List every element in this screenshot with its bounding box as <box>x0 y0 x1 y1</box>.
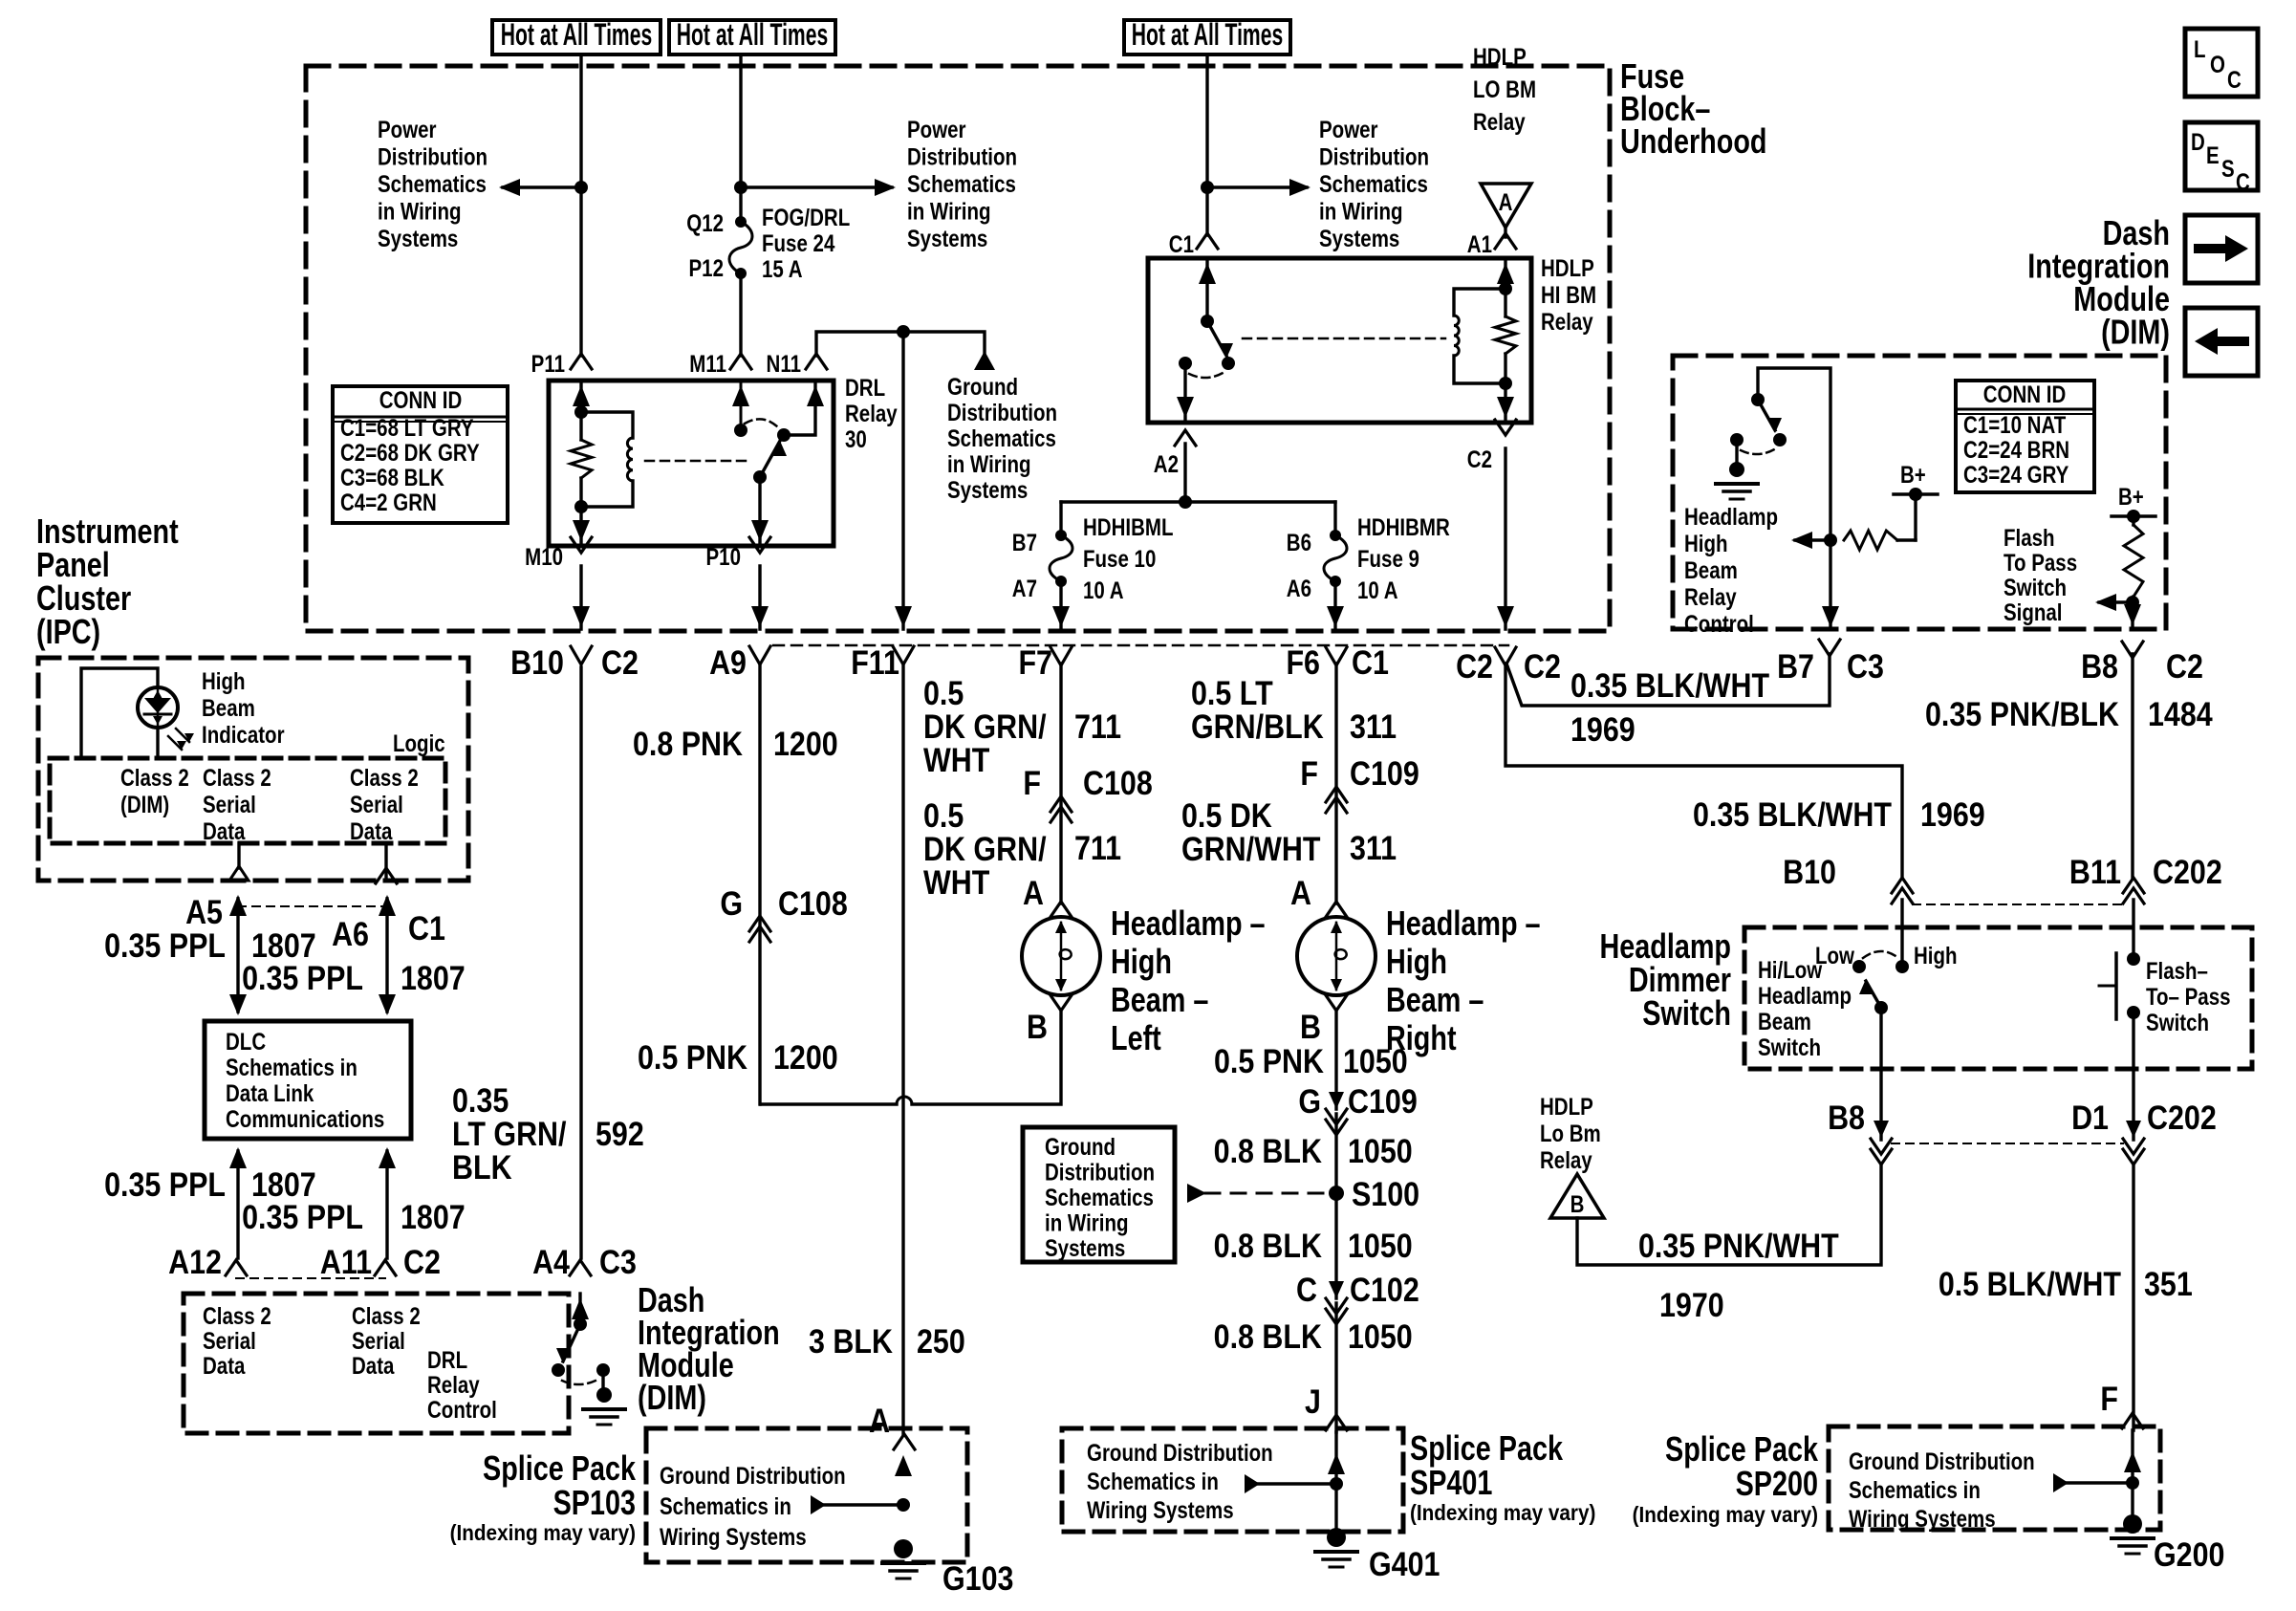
svg-text:P10: P10 <box>706 543 741 570</box>
svg-text:Power: Power <box>378 116 437 142</box>
fuse F24 FOG/DRL <box>735 216 747 228</box>
connector row inline dashed line <box>773 644 1508 647</box>
svg-text:F: F <box>1300 754 1318 792</box>
svg-text:711: 711 <box>1074 829 1121 866</box>
nav box arrow left <box>2185 308 2258 376</box>
DIM headlamp high beam relay control switch wire <box>1758 368 1830 629</box>
connector B chevron headlamp right <box>1326 995 1347 1011</box>
svg-text:FOG/DRL: FOG/DRL <box>762 204 850 230</box>
svg-text:Wiring Systems: Wiring Systems <box>660 1523 807 1550</box>
fuse feed junction dot <box>1179 495 1192 509</box>
svg-text:0.5 PNK: 0.5 PNK <box>1214 1042 1324 1079</box>
wire to fuse HDHIBML <box>1059 502 1062 535</box>
wire C2 down to fuse-block boundary <box>1504 448 1506 629</box>
connector J chevron <box>1326 1415 1347 1430</box>
arrow left from resistor junction <box>1795 538 1830 541</box>
connector B chevron headlamp left <box>1051 995 1072 1011</box>
resistor R-dimmer sense <box>1844 531 1897 550</box>
svg-text:Fuse 24: Fuse 24 <box>762 229 835 256</box>
svg-text:Left: Left <box>1111 1018 1161 1057</box>
svg-text:Wiring Systems: Wiring Systems <box>1087 1496 1234 1523</box>
wire B11 into flash-to-pass switch <box>2132 900 2134 959</box>
junction on wire 2 <box>734 181 747 194</box>
off-page triangle to ground distribution <box>974 351 995 370</box>
arrow stub to power distribution (middle) <box>741 185 892 188</box>
HI BM relay A1 terminal wire with arrow <box>1504 258 1506 289</box>
svg-text:1050: 1050 <box>1348 1132 1413 1169</box>
svg-text:B7: B7 <box>1012 529 1037 555</box>
svg-text:C: C <box>1296 1271 1317 1308</box>
svg-text:Headlamp: Headlamp <box>1758 982 1852 1009</box>
connector B10/C2 chevron <box>571 646 592 664</box>
svg-text:0.5: 0.5 <box>923 796 964 834</box>
svg-text:Control: Control <box>1684 610 1754 637</box>
svg-text:SP103: SP103 <box>553 1483 636 1522</box>
svg-text:Systems: Systems <box>947 476 1028 503</box>
DRL relay M11 contact dot <box>734 424 747 437</box>
wire flash-to-pass to D1 <box>2132 1012 2134 1140</box>
connector A9 chevron <box>749 646 770 664</box>
svg-text:Indicator: Indicator <box>202 721 285 748</box>
svg-text:(DIM): (DIM) <box>638 1378 706 1417</box>
wire fuse HDHIBMR to F6 <box>1333 581 1336 629</box>
relay K-DRL box <box>549 381 834 546</box>
wire logic to IPC edge (right) <box>384 843 387 881</box>
svg-text:B6: B6 <box>1287 529 1311 555</box>
dimmer switch pole dot <box>1874 1001 1888 1014</box>
SP103 wire with arrow <box>895 1455 912 1476</box>
DIM DRL control switch contact dot right <box>596 1363 610 1377</box>
svg-text:B7: B7 <box>1777 647 1814 685</box>
svg-text:0.8 PNK: 0.8 PNK <box>633 725 743 762</box>
svg-text:C3=68 BLK: C3=68 BLK <box>340 464 444 490</box>
svg-text:B11: B11 <box>2069 853 2121 890</box>
svg-text:1807: 1807 <box>401 1198 466 1235</box>
svg-text:1050: 1050 <box>1348 1227 1413 1264</box>
dimmer switch Low contact dot <box>1852 960 1866 973</box>
svg-text:High: High <box>1684 530 1728 556</box>
svg-text:G: G <box>720 884 743 922</box>
junction on wire 3 <box>1201 181 1214 194</box>
wire C109 G to S100 <box>1334 1114 1337 1193</box>
svg-text:To– Pass: To– Pass <box>2146 983 2230 1010</box>
DIM relay control switch top contact dot <box>1751 393 1765 406</box>
svg-text:B8: B8 <box>1828 1099 1865 1136</box>
connector B8/C2 chevron <box>2122 642 2143 658</box>
svg-text:J: J <box>1305 1382 1321 1420</box>
svg-text:Distribution: Distribution <box>1319 143 1429 170</box>
DRL relay resistor branch junction bottom <box>574 500 588 513</box>
svg-text:D1: D1 <box>2071 1099 2109 1136</box>
svg-text:A11: A11 <box>320 1243 372 1280</box>
connector C2 chevron below HI BM relay <box>1495 420 1516 435</box>
wire A9 column down <box>758 664 761 1104</box>
svg-text:Relay: Relay <box>1540 1146 1592 1173</box>
connector P11 chevron <box>571 354 592 369</box>
SP401 reference arrow <box>1258 1482 1336 1485</box>
svg-text:351: 351 <box>2144 1265 2193 1302</box>
svg-text:711: 711 <box>1074 708 1121 745</box>
svg-text:To Pass: To Pass <box>2004 549 2077 576</box>
svg-text:A12: A12 <box>168 1243 222 1280</box>
DIM relay control switch grounded contact dot <box>1730 433 1744 446</box>
HI BM relay coil branch bottom dot <box>1499 377 1512 390</box>
svg-text:Flash–: Flash– <box>2146 957 2208 984</box>
wire fuse HDHIBML to F7 <box>1059 581 1062 629</box>
svg-text:Serial: Serial <box>352 1327 405 1354</box>
ground symbol at DRL relay control <box>601 1370 604 1388</box>
dimmer switch High contact dot <box>1895 960 1909 973</box>
splice S100 <box>1329 1186 1344 1201</box>
indicator high beam (LED) <box>138 687 178 728</box>
SP103 reference arrow <box>824 1503 903 1506</box>
svg-text:S: S <box>2221 155 2235 182</box>
svg-text:0.5 LT: 0.5 LT <box>1191 674 1273 711</box>
svg-text:F: F <box>1023 764 1041 801</box>
box DLC Schematics in Data Link Communications <box>205 1021 411 1139</box>
svg-text:Class 2: Class 2 <box>203 764 271 791</box>
power feed box 'Hot at All Times' #1 <box>492 20 661 54</box>
wire N11 to F11 junction and ground-distribution arrow <box>816 332 985 356</box>
svg-text:1050: 1050 <box>1343 1042 1408 1079</box>
dimmer switch dashed throw arc <box>1863 951 1898 958</box>
svg-text:C1=68 LT GRY: C1=68 LT GRY <box>340 414 474 441</box>
wire F6 to headlamp right <box>1334 664 1337 903</box>
connector B7/C3 chevron <box>1819 640 1840 656</box>
svg-text:Beam: Beam <box>1758 1008 1811 1034</box>
svg-text:0.35 PPL: 0.35 PPL <box>104 1165 226 1203</box>
svg-text:Systems: Systems <box>907 225 987 251</box>
svg-text:P11: P11 <box>531 350 566 377</box>
svg-text:Data: Data <box>203 1352 246 1379</box>
svg-text:Beam –: Beam – <box>1386 980 1484 1019</box>
svg-text:C2=68 DK GRY: C2=68 DK GRY <box>340 439 480 466</box>
svg-text:Data Link: Data Link <box>226 1079 314 1106</box>
connector C102 double chevron <box>1326 1298 1347 1314</box>
ground symbol at relay control switch <box>1735 440 1738 463</box>
HI BM relay switch contact dot right <box>1222 357 1235 370</box>
svg-text:Control: Control <box>427 1396 497 1423</box>
svg-text:Ground: Ground <box>1045 1133 1116 1160</box>
svg-text:0.35 PNK/WHT: 0.35 PNK/WHT <box>1638 1227 1839 1264</box>
connector chevron at IPC edge right <box>376 868 397 883</box>
off-page triangle B HDLP Lo Bm relay <box>1550 1174 1604 1218</box>
svg-text:A: A <box>1499 188 1513 215</box>
lamp headlamp high beam right <box>1297 917 1375 995</box>
indicator light rays <box>176 729 189 742</box>
wire from Hot at All Times #2 down to fuse Q12 <box>739 54 742 222</box>
module box Instrument Panel Cluster (dashed) <box>38 658 468 881</box>
flash-to-pass switch top dot <box>2127 952 2140 966</box>
svg-text:(Indexing may vary): (Indexing may vary) <box>450 1520 636 1545</box>
HI BM relay switch arm <box>1207 321 1226 356</box>
svg-text:SP401: SP401 <box>1410 1463 1492 1502</box>
svg-text:C1: C1 <box>1169 230 1194 257</box>
svg-text:A4: A4 <box>532 1243 571 1280</box>
svg-text:Q12: Q12 <box>686 209 724 236</box>
wire A11 up arrow <box>385 1151 388 1258</box>
svg-text:Serial: Serial <box>350 791 403 817</box>
svg-text:Headlamp –: Headlamp – <box>1111 903 1266 943</box>
coil L-HIBM <box>1454 289 1505 316</box>
DIM DRL control switch arm <box>563 1324 580 1361</box>
junction of N11 wire and F11 column <box>897 325 910 338</box>
svg-text:Schematics in: Schematics in <box>1849 1476 1981 1503</box>
HI BM relay C1 terminal wire with arrow <box>1205 258 1208 321</box>
svg-text:Ground Distribution: Ground Distribution <box>1849 1448 2035 1474</box>
svg-text:WHT: WHT <box>923 863 989 901</box>
svg-text:0.5 DK: 0.5 DK <box>1181 796 1272 834</box>
svg-text:B: B <box>1570 1190 1585 1217</box>
wire headlamp left B down <box>912 1011 1061 1104</box>
right CONN ID table <box>1956 381 2094 492</box>
wire 0.35 BLK/WHT 1969 from C2 to B7 <box>1506 654 1830 706</box>
svg-text:Data: Data <box>350 817 393 844</box>
left CONN ID table <box>333 386 508 523</box>
connector triangle at IPC edge <box>229 866 249 881</box>
wire A12 up arrow <box>236 1151 239 1258</box>
SP200 wire with arrow <box>2131 1430 2134 1524</box>
svg-text:M11: M11 <box>689 350 726 377</box>
wire B10 into dimmer switch High contact <box>1900 900 1903 967</box>
svg-text:Logic: Logic <box>393 729 445 756</box>
svg-text:C102: C102 <box>1350 1271 1419 1308</box>
svg-text:C2: C2 <box>1467 446 1492 472</box>
DRL relay switch dashed throw arc <box>745 419 778 427</box>
svg-text:A5: A5 <box>185 893 223 930</box>
connector B11 double chevron <box>2123 878 2144 893</box>
wire A5 double arrow <box>236 899 239 1012</box>
svg-text:A: A <box>869 1402 890 1439</box>
svg-text:1969: 1969 <box>1570 710 1635 748</box>
connector C109 pin F double chevron <box>1326 787 1347 802</box>
svg-text:0.5 BLK/WHT: 0.5 BLK/WHT <box>1939 1265 2121 1302</box>
dashed reference to ground distribution S100 <box>1205 1192 1329 1195</box>
svg-text:C2=24 BRN: C2=24 BRN <box>1963 436 2069 463</box>
connector dashed link A12-A11 <box>236 1277 385 1279</box>
svg-text:3 BLK: 3 BLK <box>809 1322 893 1360</box>
svg-text:E: E <box>2206 142 2220 168</box>
wire B8 to B11 (0.35 PNK/BLK 1484) <box>2131 654 2134 878</box>
svg-text:Beam: Beam <box>202 694 255 721</box>
svg-text:Hot at All Times: Hot at All Times <box>1132 16 1283 52</box>
svg-text:C3: C3 <box>599 1243 637 1280</box>
svg-text:0.35 PNK/BLK: 0.35 PNK/BLK <box>1925 695 2119 732</box>
SP200 reference arrow <box>2067 1481 2133 1484</box>
svg-text:HDLP: HDLP <box>1473 43 1527 70</box>
wire dimmer pole to B8 <box>1879 1008 1882 1140</box>
wire switch common to N11 <box>784 381 815 435</box>
HI BM relay switch pole dot <box>1201 315 1214 328</box>
connector A1 chevron (HI BM relay) <box>1495 233 1516 249</box>
svg-text:L: L <box>2194 35 2206 62</box>
svg-text:C2: C2 <box>601 643 639 681</box>
svg-text:P12: P12 <box>689 254 724 281</box>
svg-text:Switch: Switch <box>1758 1034 1821 1060</box>
power feed box 'Hot at All Times' #2 <box>669 20 835 54</box>
svg-text:0.5 PNK: 0.5 PNK <box>638 1038 747 1076</box>
svg-text:C1: C1 <box>1352 643 1389 681</box>
svg-text:(IPC): (IPC) <box>36 612 100 651</box>
svg-text:Hi/Low: Hi/Low <box>1758 956 1822 983</box>
svg-text:(DIM): (DIM) <box>2101 312 2170 351</box>
svg-text:0.8 BLK: 0.8 BLK <box>1214 1227 1323 1264</box>
svg-text:DK GRN/: DK GRN/ <box>923 830 1047 867</box>
svg-text:D: D <box>2191 128 2205 155</box>
svg-text:HDLP: HDLP <box>1541 254 1594 281</box>
svg-text:Hot at All Times: Hot at All Times <box>677 16 828 52</box>
svg-text:592: 592 <box>596 1115 644 1152</box>
svg-text:Data: Data <box>203 817 246 844</box>
svg-text:A2: A2 <box>1154 450 1179 477</box>
svg-text:G401: G401 <box>1369 1545 1440 1582</box>
svg-text:1807: 1807 <box>401 959 466 996</box>
svg-text:Headlamp –: Headlamp – <box>1386 903 1541 943</box>
svg-text:in Wiring: in Wiring <box>947 450 1031 477</box>
wire F11 to splice pack SP103 <box>901 664 904 1434</box>
svg-text:Class 2: Class 2 <box>120 764 189 791</box>
DRL relay resistor output wire to M10 with arrow <box>579 507 582 546</box>
wire B10/C2 to A4/C3 <box>579 667 582 1258</box>
svg-text:Systems: Systems <box>1045 1234 1125 1261</box>
DIM relay control switch dashed throw arc <box>1741 448 1776 454</box>
svg-text:DK GRN/: DK GRN/ <box>923 708 1047 745</box>
resistor R-HIBM <box>1504 289 1506 316</box>
hop over F11 wire <box>897 1097 912 1104</box>
svg-text:0.35 PPL: 0.35 PPL <box>242 959 363 996</box>
svg-text:in Wiring: in Wiring <box>378 198 462 225</box>
box splice pack SP200 ground distribution (dashed) <box>1829 1426 2160 1530</box>
svg-text:WHT: WHT <box>923 741 989 778</box>
svg-text:N11: N11 <box>767 350 802 377</box>
connector A11 chevron <box>375 1260 396 1275</box>
connector C108 pin F double chevron <box>1051 796 1072 812</box>
svg-text:Signal: Signal <box>2004 599 2063 625</box>
svg-text:Class 2: Class 2 <box>350 764 419 791</box>
svg-text:in Wiring: in Wiring <box>907 198 991 225</box>
svg-text:High: High <box>1386 942 1447 981</box>
svg-text:Data: Data <box>352 1352 395 1379</box>
nav box LOC <box>2185 29 2258 97</box>
svg-text:0.5: 0.5 <box>923 674 964 711</box>
svg-text:Schematics in: Schematics in <box>1087 1468 1219 1494</box>
junction on wire 1 <box>574 181 588 194</box>
svg-text:Switch: Switch <box>2004 574 2067 600</box>
relay HDLP LO BM off-page triangle A <box>1481 184 1531 228</box>
svg-text:Splice Pack: Splice Pack <box>483 1448 637 1488</box>
connector A12 chevron <box>226 1260 247 1275</box>
connector A4 chevron <box>570 1260 591 1275</box>
module box Dash Integration Module (dashed) <box>1673 356 2166 629</box>
wire splice bus to A9 column <box>761 1102 897 1105</box>
connector F6/C1 chevron <box>1326 647 1347 665</box>
SP401 junction dot <box>1330 1477 1343 1491</box>
svg-text:B: B <box>1027 1008 1048 1045</box>
junction dot flash-to-pass signal <box>2126 596 2139 609</box>
svg-text:Beam: Beam <box>1684 556 1738 583</box>
connector C108 pin G double chevron <box>749 916 770 931</box>
HI BM relay coil branch top dot <box>1499 282 1512 295</box>
module box Dash Integration Module bottom (dashed) <box>184 1294 569 1433</box>
connector M11 chevron <box>730 354 751 369</box>
svg-text:1200: 1200 <box>773 725 838 762</box>
connector C2/C2 chevron <box>1495 647 1516 665</box>
svg-text:B: B <box>1300 1008 1321 1045</box>
svg-text:C2: C2 <box>1524 647 1561 685</box>
svg-text:O: O <box>2210 51 2225 77</box>
svg-text:DLC: DLC <box>226 1028 266 1055</box>
svg-text:HI BM: HI BM <box>1541 281 1596 308</box>
svg-text:0.8 BLK: 0.8 BLK <box>1214 1317 1323 1355</box>
DRL relay P11 terminal wire with arrow <box>579 381 582 412</box>
svg-text:G200: G200 <box>2154 1535 2224 1573</box>
svg-text:1050: 1050 <box>1348 1317 1413 1355</box>
svg-text:Wiring Systems: Wiring Systems <box>1849 1505 1996 1532</box>
svg-text:Schematics in: Schematics in <box>226 1054 357 1080</box>
wire B8 to HDLP Lo Bm relay triangle <box>1577 1165 1881 1265</box>
wire indicator to logic <box>156 728 159 758</box>
DRL relay switch pivot dot <box>753 470 767 484</box>
svg-text:Distribution: Distribution <box>378 143 487 170</box>
DRL relay coil-switch dashed link <box>645 460 750 463</box>
arrow stub to power distribution (left) <box>503 185 581 188</box>
svg-text:Power: Power <box>1319 116 1378 142</box>
ground G103 <box>894 1539 913 1558</box>
svg-text:High: High <box>202 667 246 694</box>
connector F chevron (SP200) <box>2122 1413 2143 1428</box>
svg-text:1484: 1484 <box>2148 695 2213 732</box>
wire F11 column inside fuse block <box>901 332 904 629</box>
relay K-HDLP-HI-BM box <box>1148 258 1531 423</box>
svg-text:C2: C2 <box>2166 647 2203 685</box>
svg-text:Serial: Serial <box>203 1327 256 1354</box>
connector F11 chevron <box>893 646 914 664</box>
svg-text:Power: Power <box>907 116 966 142</box>
svg-text:Beam –: Beam – <box>1111 980 1208 1019</box>
DIM relay control switch arm <box>1758 400 1775 430</box>
svg-text:HDHIBML: HDHIBML <box>1083 513 1174 540</box>
nav box DESC <box>2185 122 2258 190</box>
arrow stub to power distribution (right) <box>1207 185 1307 188</box>
svg-text:Ground: Ground <box>947 373 1018 400</box>
DIM DRL control switch contact dot left <box>552 1363 565 1377</box>
connector B10 double chevron <box>1892 878 1913 893</box>
svg-text:A6: A6 <box>332 915 369 952</box>
wire from Hot at All Times #3 down to C1 <box>1205 54 1208 235</box>
wire to fuse HDHIBMR <box>1333 502 1336 535</box>
SP103 junction dot <box>897 1498 910 1512</box>
flash-to-pass switch plate <box>2114 953 2118 1019</box>
HI BM relay switch dashed throw arc <box>1189 372 1224 378</box>
connector B8 double chevron (C202) <box>1871 1139 1892 1154</box>
svg-text:G103: G103 <box>942 1559 1013 1597</box>
svg-text:GRN/WHT: GRN/WHT <box>1181 830 1320 867</box>
connector C109 G double chevron <box>1326 1109 1347 1124</box>
svg-text:High: High <box>1111 942 1172 981</box>
svg-text:Relay: Relay <box>1684 583 1737 610</box>
svg-text:BLK: BLK <box>452 1148 512 1186</box>
DRL relay switch arm <box>760 441 780 477</box>
svg-text:S100: S100 <box>1352 1175 1419 1212</box>
svg-text:1200: 1200 <box>773 1038 838 1076</box>
SP200 junction dot <box>2126 1476 2139 1490</box>
svg-text:311: 311 <box>1350 829 1397 866</box>
module box Fuse Block - Underhood (dashed) <box>306 66 1610 631</box>
arrow left flash-to-pass signal <box>2099 600 2133 603</box>
DRL relay switch common contact dot <box>777 428 791 442</box>
svg-text:C4=2 GRN: C4=2 GRN <box>340 489 437 515</box>
svg-text:C2: C2 <box>1456 647 1493 685</box>
